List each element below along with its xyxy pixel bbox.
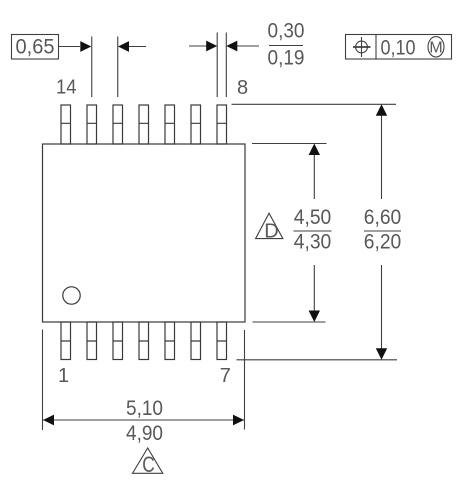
svg-text:0,10: 0,10 (381, 37, 416, 60)
svg-text:7: 7 (220, 365, 231, 387)
svg-text:0,30: 0,30 (268, 20, 305, 43)
svg-text:M: M (429, 40, 442, 57)
svg-text:6,20: 6,20 (364, 231, 402, 254)
svg-text:1: 1 (58, 365, 69, 387)
svg-text:C: C (142, 452, 155, 477)
svg-text:8: 8 (237, 77, 248, 99)
svg-text:5,10: 5,10 (126, 397, 163, 420)
svg-text:4,30: 4,30 (294, 231, 332, 254)
svg-text:14: 14 (56, 77, 77, 99)
svg-text:D: D (264, 221, 278, 243)
svg-text:4,50: 4,50 (294, 206, 332, 229)
svg-text:0,19: 0,19 (268, 47, 305, 70)
svg-text:6,60: 6,60 (364, 206, 402, 229)
svg-text:0,65: 0,65 (16, 36, 55, 59)
svg-text:4,90: 4,90 (126, 422, 163, 445)
